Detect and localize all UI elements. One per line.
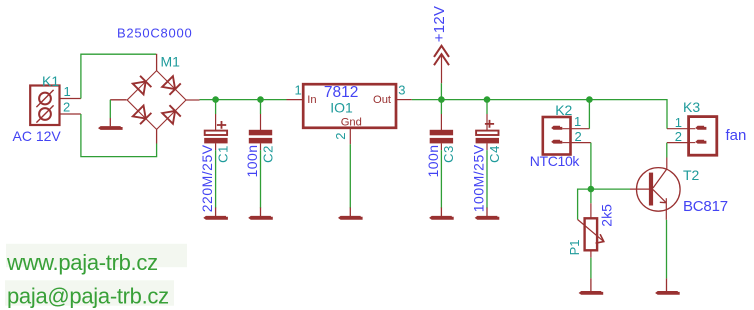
junction C4 <box>484 96 491 103</box>
svg-text:100n: 100n <box>425 144 441 177</box>
svg-text:2: 2 <box>575 129 582 144</box>
svg-text:www.paja-trb.cz: www.paja-trb.cz <box>6 250 158 275</box>
plus sign C1 <box>217 121 226 129</box>
svg-text:paja@paja-trb.cz: paja@paja-trb.cz <box>7 284 169 309</box>
C3 plate 2 <box>430 138 453 144</box>
ground (P1) <box>579 291 604 295</box>
junction K2 <box>586 96 593 103</box>
collector <box>653 169 667 188</box>
wire junction to C4 <box>486 100 488 114</box>
transistor T2 <box>630 158 680 220</box>
svg-text:100n: 100n <box>244 144 260 177</box>
net wire bridge out to IO1 in <box>200 99 287 101</box>
IO1 box <box>303 84 396 128</box>
bridge rectifier M1 <box>110 54 199 144</box>
wire +12V to rail <box>440 83 442 99</box>
ground (bridge) <box>98 126 123 130</box>
capacitor C1 <box>203 100 228 220</box>
svg-text:C3: C3 <box>441 145 456 163</box>
svg-text:K2: K2 <box>555 102 572 118</box>
wire emitter to ground <box>666 220 668 279</box>
wire K2 pin2 down to node <box>590 143 592 190</box>
website background tint 2 <box>5 280 174 305</box>
svg-text:Gnd: Gnd <box>341 116 362 128</box>
diode D4 bottom-right <box>162 105 181 124</box>
junction C2 <box>257 96 264 103</box>
diode D1 top-left <box>132 76 151 95</box>
pin stub bottom <box>156 129 158 143</box>
svg-text:220M/25V: 220M/25V <box>199 144 215 212</box>
svg-text:C1: C1 <box>215 145 230 163</box>
emitter <box>653 190 666 203</box>
svg-text:2: 2 <box>675 129 682 144</box>
wire P1 to ground <box>590 258 592 279</box>
website background tint 1 <box>6 244 187 267</box>
junction +12V/C3 <box>438 96 445 103</box>
connector K2 <box>543 117 591 155</box>
wiper arrow <box>578 220 604 242</box>
wire junction to C2 <box>260 100 262 114</box>
junction node base/P1 <box>588 186 595 193</box>
wire C1 to ground <box>215 143 217 150</box>
wire junction to C1 <box>215 100 217 114</box>
svg-text:1: 1 <box>574 114 581 129</box>
diode D3 bottom-left <box>132 105 151 124</box>
svg-text:C2: C2 <box>260 145 275 163</box>
wire junction to C3 <box>440 100 442 114</box>
svg-text:M1: M1 <box>161 54 181 70</box>
svg-text:2: 2 <box>333 133 348 140</box>
svg-text:100M/25V: 100M/25V <box>471 144 487 212</box>
C1 negative plate <box>204 138 227 144</box>
svg-text:2: 2 <box>63 100 70 115</box>
svg-text:P1: P1 <box>567 239 582 255</box>
svg-text:IO1: IO1 <box>330 100 353 116</box>
contact K2-1 <box>551 126 562 130</box>
svg-text:AC 12V: AC 12V <box>13 128 62 144</box>
connector K1 <box>30 86 81 126</box>
connector K3 <box>667 117 717 156</box>
svg-text:2k5: 2k5 <box>599 204 615 227</box>
contact K3-1 <box>695 126 706 130</box>
contact K2-2 <box>551 140 562 144</box>
svg-text:1: 1 <box>295 82 302 97</box>
ground (C2) <box>248 216 273 220</box>
ground (C4) <box>475 216 500 220</box>
net rail +12V <box>412 100 667 129</box>
svg-text:K3: K3 <box>683 99 700 115</box>
C3 plate 1 <box>430 130 453 136</box>
C4 positive plate (hollow) <box>476 131 498 135</box>
potentiometer P1 <box>578 203 604 257</box>
pin 3 stub <box>396 99 412 101</box>
svg-text:1: 1 <box>64 84 71 99</box>
diode D2 top-right <box>162 76 181 95</box>
pin stub top <box>156 54 158 71</box>
regulator IO1 7812 <box>287 82 412 219</box>
wire IO1 gnd <box>349 144 351 208</box>
svg-text:K1: K1 <box>42 73 59 89</box>
svg-text:B250C8000: B250C8000 <box>117 26 192 41</box>
wire node to T2 base <box>591 188 630 190</box>
base bar <box>649 173 653 206</box>
svg-text:Out: Out <box>373 94 392 106</box>
wire C2 to ground <box>260 143 262 150</box>
wire rail to K2 pin1 <box>588 100 590 129</box>
svg-text:7812: 7812 <box>324 84 358 101</box>
wire node to P1 wiper <box>578 189 591 219</box>
svg-text:NTC10k: NTC10k <box>530 153 581 169</box>
C2 plate 2 <box>249 138 272 144</box>
pin 2 stub <box>349 128 351 144</box>
contact K3-2 <box>695 140 706 144</box>
C2 plate 1 <box>249 130 272 136</box>
junction C1 <box>212 96 219 103</box>
wire collector to K3 pin2 <box>666 143 668 158</box>
ground (IO1) <box>338 216 363 220</box>
ground (T2) <box>655 291 680 295</box>
svg-text:fan: fan <box>726 127 747 144</box>
pin stub right <box>186 99 200 101</box>
wire C3 to ground <box>440 143 442 150</box>
diamond outline <box>127 71 186 130</box>
wire K1 pin1 to bridge top <box>81 54 156 98</box>
wire bridge left to ground <box>109 100 111 118</box>
capacitor C2 <box>248 100 273 220</box>
svg-text:BC817: BC817 <box>683 198 728 215</box>
C1 positive plate (hollow) <box>205 131 227 135</box>
ground (C3) <box>429 216 454 220</box>
pin stub left <box>110 99 126 101</box>
supply +12V symbol <box>434 46 449 83</box>
wire K1 pin2 to bridge bottom <box>81 114 157 157</box>
svg-text:C4: C4 <box>487 145 502 163</box>
plus sign C4 <box>485 120 494 128</box>
svg-text:3: 3 <box>398 82 405 97</box>
C4 negative plate <box>476 138 499 144</box>
svg-text:+12V: +12V <box>431 6 448 43</box>
capacitor C4 <box>475 100 500 220</box>
svg-text:T2: T2 <box>683 167 700 183</box>
svg-text:In: In <box>307 94 316 106</box>
ground (C1) <box>203 216 228 220</box>
wire node to P1 top <box>590 189 592 203</box>
wire C4 to ground <box>486 143 488 150</box>
capacitor C3 <box>429 100 454 220</box>
pin 1 stub <box>287 99 304 101</box>
